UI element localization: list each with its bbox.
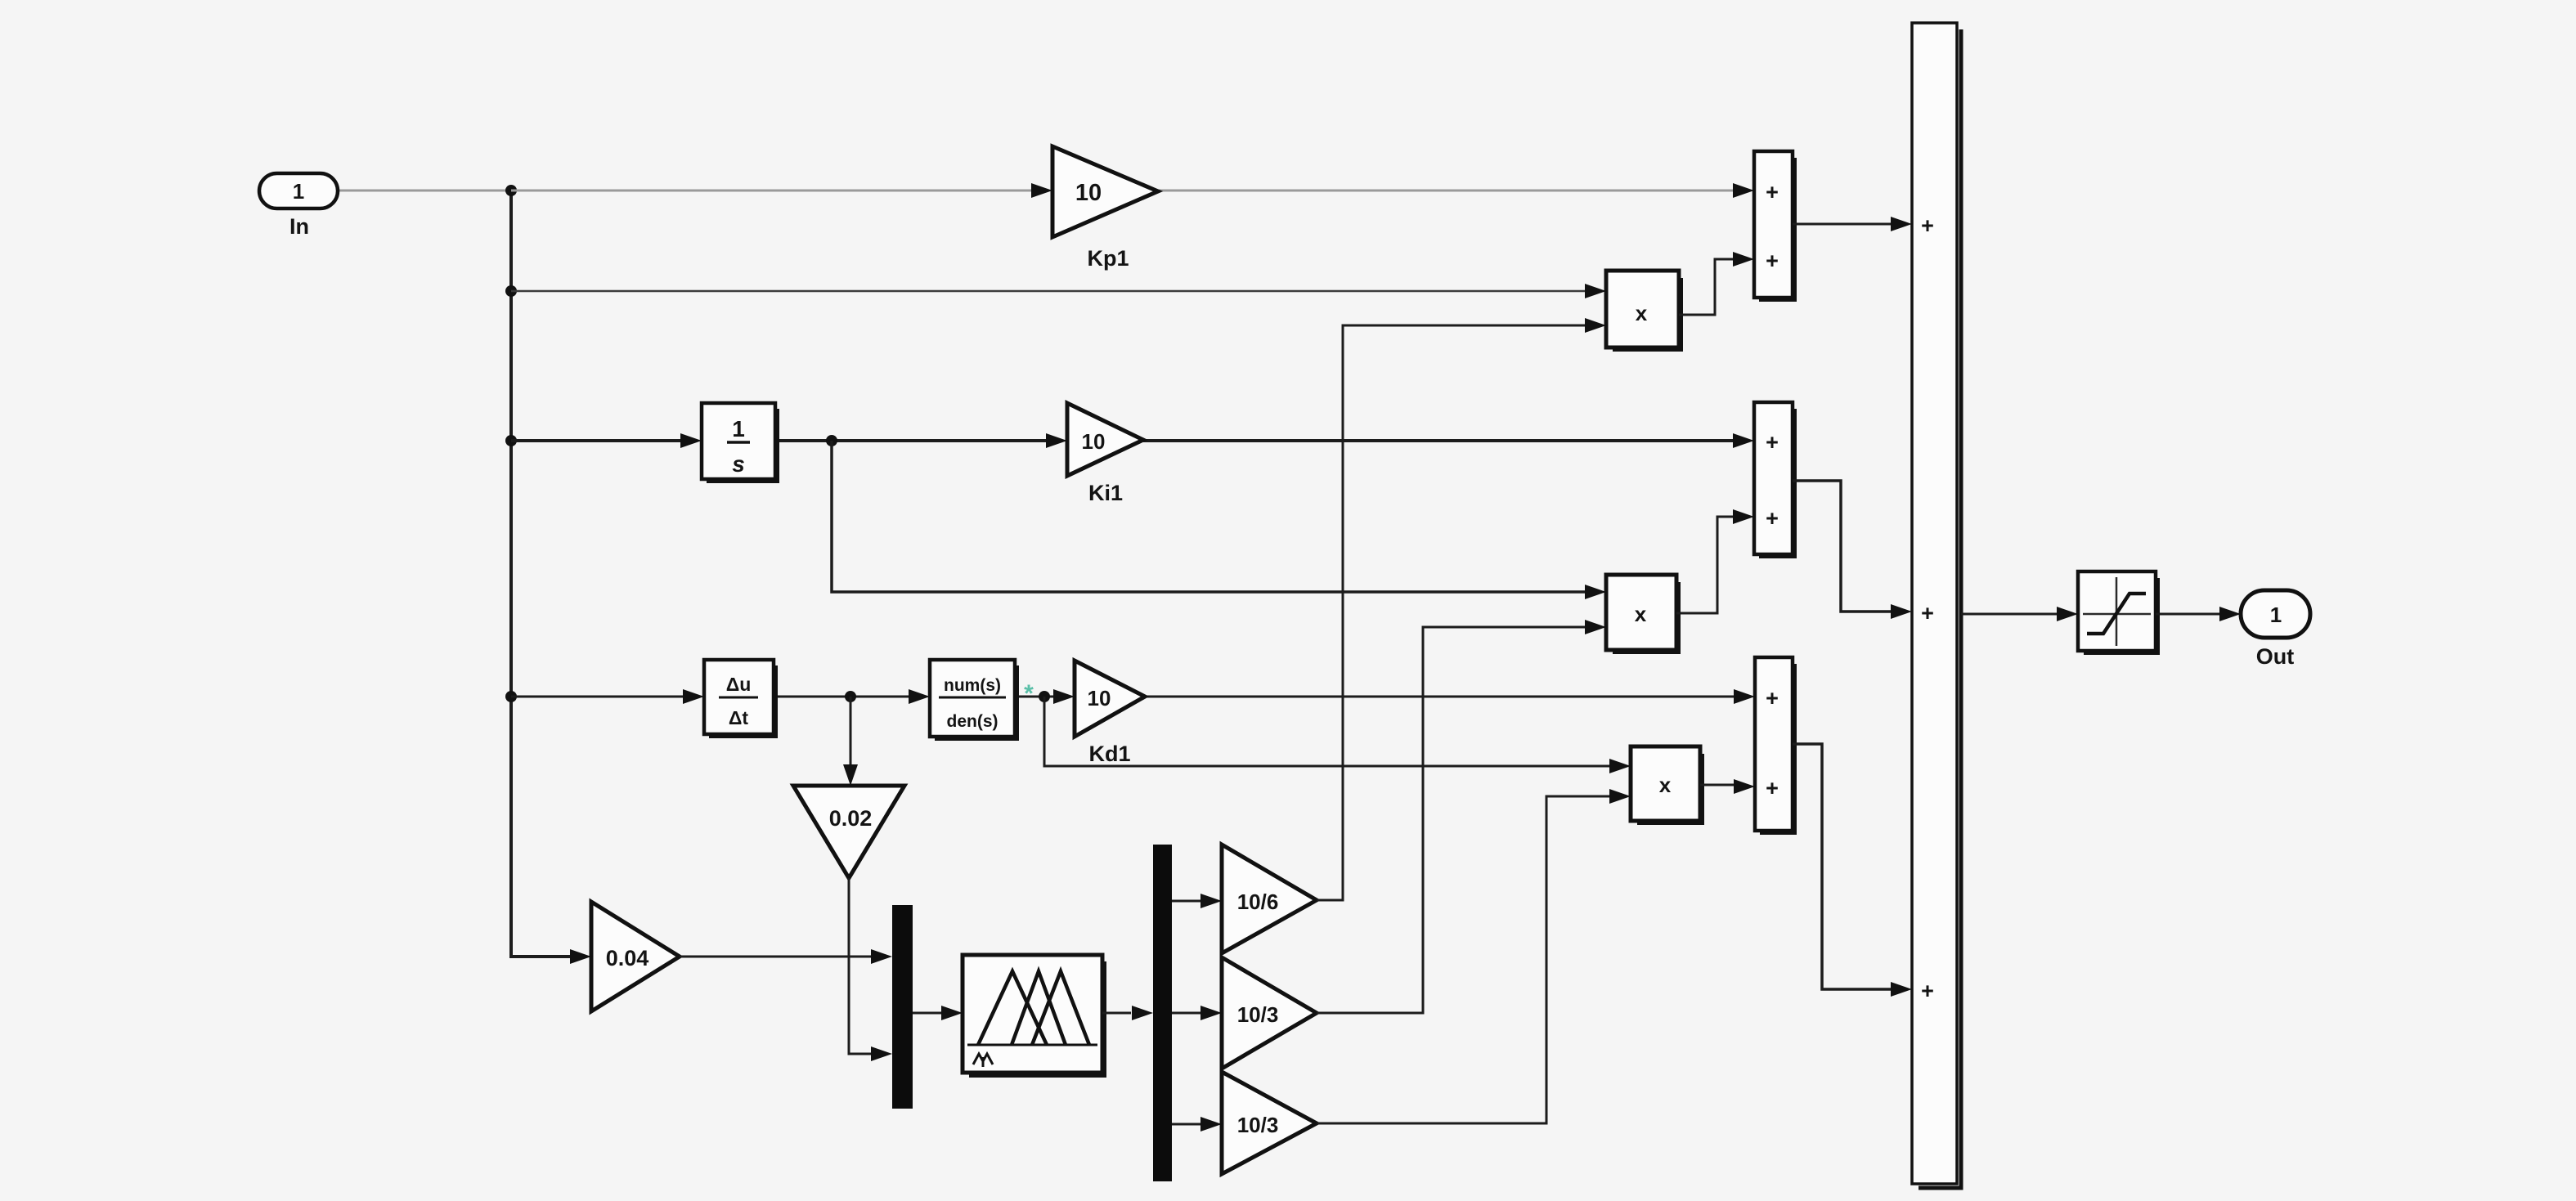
svg-text:den(s): den(s) <box>947 712 999 731</box>
wire demux to gain 10/6 <box>1172 900 1200 903</box>
wire 0.02 down and right to mux input 2 <box>849 878 871 1054</box>
product3 block <box>1631 746 1703 823</box>
junction node row2 <box>505 285 517 297</box>
arrow down into 0.02 <box>843 764 858 786</box>
adder tall block <box>1912 23 1961 1188</box>
wire Kd1 to sum3 input 1 <box>1145 696 1734 698</box>
svg-text:Δt: Δt <box>729 707 749 728</box>
wire adder to saturation <box>1961 613 2057 616</box>
fuzzy logic controller block <box>963 955 1105 1076</box>
product2 block <box>1606 575 1679 652</box>
inport In <box>259 173 338 239</box>
arrow into product2 input 2 <box>1585 620 1606 634</box>
svg-text:10/6: 10/6 <box>1237 890 1279 914</box>
arrow into outport <box>2219 607 2241 621</box>
wire In to main junction <box>338 190 511 192</box>
svg-text:+: + <box>1921 979 1934 1003</box>
svg-text:+: + <box>1766 180 1779 204</box>
svg-text:In: In <box>289 214 309 239</box>
svg-text:Out: Out <box>2256 644 2295 669</box>
gain 10/3 bottom <box>1222 1072 1317 1174</box>
wire derivative branch down to 0.02 <box>850 697 852 764</box>
wire integrator to Ki1 <box>775 439 1046 442</box>
svg-text:10/3: 10/3 <box>1237 1002 1279 1027</box>
wire product1 output to sum1 input 2 <box>1679 259 1733 315</box>
wire main vertical bus x625 with corner to 0.04 row <box>511 190 571 957</box>
junction node row1 <box>505 185 517 196</box>
svg-text:1: 1 <box>2270 603 2282 627</box>
gain 0.04 <box>591 902 680 1011</box>
wire row4 junction to derivative <box>511 696 683 698</box>
arrow into product2 input 1 <box>1585 585 1606 599</box>
svg-text:Δu: Δu <box>726 674 752 695</box>
wire row3 junction to integrator <box>511 439 680 442</box>
arrow into product1 input 1 <box>1585 284 1606 298</box>
gain 10/6 <box>1222 845 1317 953</box>
junction node row4 <box>505 691 517 702</box>
svg-text:0.02: 0.02 <box>829 806 873 831</box>
arrow into gain 10/6 <box>1200 894 1222 908</box>
arrow into gain 10/3 bottom <box>1200 1117 1222 1132</box>
arrow into sum2 input 2 <box>1733 509 1754 524</box>
gain Ki1 <box>1067 403 1143 505</box>
arrow into gain 10/3 mid <box>1200 1006 1222 1020</box>
arrow into adder input 3 <box>1891 982 1912 997</box>
arrow into demux <box>1132 1006 1153 1020</box>
svg-text:0.04: 0.04 <box>606 946 649 970</box>
junction dot at demux input <box>1132 1008 1142 1018</box>
outport Out <box>2241 590 2310 669</box>
sum1 block <box>1754 151 1795 300</box>
arrow into product1 input 2 <box>1585 318 1606 333</box>
svg-text:*: * <box>1024 680 1034 707</box>
arrow into mux input 1 <box>871 949 892 964</box>
arrow into sum2 input 1 <box>1733 433 1754 448</box>
arrow into fuzzy controller <box>941 1006 963 1020</box>
arrow into sum3 input 2 <box>1734 779 1755 794</box>
wire product3 output to sum3 input 2 <box>1700 784 1734 786</box>
svg-text:+: + <box>1766 686 1779 710</box>
svg-text:num(s): num(s) <box>944 676 1001 695</box>
derivative block du/dt <box>704 660 776 737</box>
arrow into integrator <box>680 433 702 448</box>
wire saturation to outport <box>2156 613 2219 616</box>
integrator block 1/s <box>702 403 778 482</box>
gain Kp1 <box>1052 146 1158 271</box>
svg-text:+: + <box>1766 506 1779 531</box>
svg-text:x: x <box>1659 773 1672 797</box>
wire product2 output to sum2 input 2 <box>1676 517 1733 613</box>
saturation block <box>2078 571 2158 653</box>
demux bar <box>1153 845 1172 1181</box>
product1 block <box>1606 271 1681 350</box>
arrow into adder input 2 <box>1891 604 1912 619</box>
wire demux to gain 10/3 bottom <box>1172 1123 1200 1126</box>
arrow into saturation <box>2057 607 2078 621</box>
wire 10/3 bottom up to product3 input 2 <box>1317 796 1609 1123</box>
arrow into adder input 1 <box>1891 217 1912 231</box>
wire Ki1 to sum2 input 1 <box>1143 439 1733 442</box>
arrow into sum1 input 1 <box>1733 183 1754 198</box>
wire sum1 output to adder <box>1793 223 1891 226</box>
arrow into 0.04 <box>570 949 591 964</box>
svg-text:10: 10 <box>1088 686 1111 710</box>
wire transfer fcn branch down and right to product3 input 1 <box>1044 697 1609 766</box>
wire row1 junction to Kp1 <box>511 190 1031 192</box>
arrow into product3 input 2 <box>1609 789 1631 804</box>
junction node after integrator <box>826 435 837 446</box>
svg-text:s: s <box>732 451 745 477</box>
wire Kp1 to sum1 <box>1158 190 1733 192</box>
wire sum2 output to adder middle input <box>1793 481 1891 612</box>
wire integrator branch down and right to product2 input 1 <box>832 441 1585 592</box>
sum2 block <box>1754 402 1795 557</box>
svg-text:x: x <box>1635 602 1647 626</box>
svg-text:+: + <box>1921 213 1934 238</box>
arrow into mux input 2 <box>871 1046 892 1061</box>
arrow into Ki1 <box>1046 433 1067 448</box>
mux bar <box>892 905 913 1109</box>
svg-text:10/3: 10/3 <box>1237 1113 1279 1137</box>
arrow into sum1 input 2 <box>1733 252 1754 267</box>
arrow into transfer fcn <box>909 689 930 704</box>
arrow into Kp1 <box>1031 183 1052 198</box>
wire row2 junction to product1 input 1 <box>511 290 1587 293</box>
svg-text:10: 10 <box>1082 429 1106 454</box>
svg-text:1: 1 <box>293 179 304 204</box>
wire transfer fcn to Kd1 <box>1015 696 1053 698</box>
wire sum3 output to adder bottom input <box>1793 744 1891 989</box>
wire demux to gain 10/3 mid <box>1172 1012 1200 1015</box>
svg-text:1: 1 <box>732 416 745 441</box>
svg-text:+: + <box>1766 249 1779 273</box>
arrow into Kd1 <box>1053 689 1075 704</box>
transfer fcn block num(s)/den(s) <box>930 660 1017 739</box>
sum3 block <box>1755 657 1795 833</box>
arrow into sum3 input 1 <box>1734 689 1755 704</box>
arrow into derivative <box>683 689 704 704</box>
svg-text:Kd1: Kd1 <box>1088 742 1130 766</box>
wire derivative to transfer fcn <box>774 696 909 698</box>
wire 10/3 mid up to product2 input 2 <box>1317 627 1585 1013</box>
wire mux to fuzzy controller <box>913 1012 941 1015</box>
svg-text:Ki1: Ki1 <box>1088 481 1123 505</box>
wire 0.04 to mux input 1 <box>680 956 871 958</box>
svg-text:+: + <box>1766 430 1779 455</box>
arrow into product3 input 1 <box>1609 759 1631 773</box>
gain Kd1 <box>1075 661 1145 766</box>
wire 10/6 up to product1 input 2 <box>1317 325 1587 900</box>
junction node row3 <box>505 435 517 446</box>
svg-text:10: 10 <box>1075 180 1102 206</box>
svg-text:x: x <box>1636 301 1648 325</box>
svg-text:+: + <box>1766 776 1779 800</box>
junction node after transfer fcn <box>1039 691 1050 702</box>
gain 0.02 pointing down <box>793 786 904 878</box>
svg-text:Kp1: Kp1 <box>1087 246 1129 271</box>
wire fuzzy to demux <box>1102 1012 1131 1015</box>
svg-text:+: + <box>1921 601 1934 625</box>
gain 10/3 mid <box>1222 957 1317 1069</box>
junction node after derivative <box>845 691 856 702</box>
